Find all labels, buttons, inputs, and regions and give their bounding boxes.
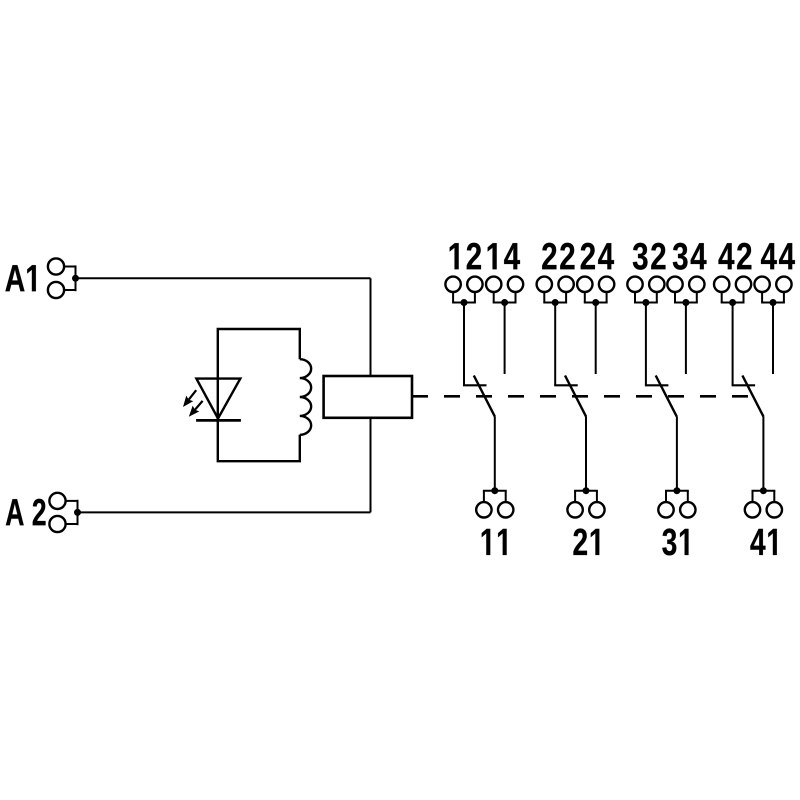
contact arm 11-12 (changeover) (474, 376, 495, 417)
node 21 junction (583, 487, 590, 494)
contact arm 31-32 (changeover) (656, 376, 677, 417)
label 42 (718, 243, 751, 270)
node A2 junction (74, 509, 81, 516)
label 32 (633, 243, 666, 270)
relay K1 actuator box (324, 376, 412, 418)
label 12 (450, 243, 481, 270)
node 12 junction (461, 299, 468, 306)
wire A1-A2 vertical (370, 278, 372, 512)
node 31 junction (673, 487, 680, 494)
mechanical linkage (dashed) (412, 395, 748, 398)
node 44 junction (770, 299, 777, 306)
LED emission arrow 2 (189, 401, 203, 417)
terminal 31 (double clamp circles) (658, 491, 695, 518)
wire 42 down (732, 303, 734, 386)
terminal 14 (double clamp circles) (486, 277, 523, 303)
terminal A2 (double clamp circles) (49, 493, 77, 532)
node 11 junction (491, 487, 498, 494)
wire arm down to 31 (676, 416, 678, 491)
terminal 22 (double clamp circles) (537, 277, 574, 303)
input module box outline (218, 329, 300, 461)
wire 44 down (NO contact end) (772, 303, 774, 375)
contact 22 fixed (NC) (554, 384, 578, 386)
label A2 (6, 499, 46, 526)
wire A1 horizontal (76, 277, 371, 279)
label 34 (673, 243, 707, 270)
terminal 32 (double clamp circles) (627, 277, 664, 303)
label 24 (581, 243, 614, 270)
contact 12 fixed (NC) (463, 384, 487, 386)
label 44 (761, 243, 795, 269)
node 34 junction (682, 299, 689, 306)
label A1 (5, 265, 35, 291)
node 22 junction (552, 299, 559, 306)
node A1 junction (72, 275, 79, 282)
coil L1 (relay coil winding) (300, 359, 311, 435)
wire 24 down (NO contact end) (595, 303, 597, 375)
terminal 44 (double clamp circles) (754, 277, 791, 303)
label 14 (488, 243, 520, 269)
terminal 24 (double clamp circles) (577, 277, 614, 303)
LED D1 cathode bar (196, 419, 241, 422)
label 21 (573, 528, 599, 555)
node 42 junction (729, 299, 736, 306)
node 41 junction (760, 487, 767, 494)
wire arm down to 21 (585, 416, 587, 491)
label 41 (750, 529, 776, 555)
wire 12 down (463, 303, 465, 386)
wire 32 down (645, 303, 647, 386)
wire arm down to 11 (494, 416, 496, 491)
terminal 34 (double clamp circles) (667, 277, 704, 303)
contact 32 fixed (NC) (645, 384, 669, 386)
terminal 12 (double clamp circles) (445, 277, 482, 303)
label 11 (482, 529, 507, 555)
node 14 junction (501, 299, 508, 306)
terminal A1 (double clamp circles) (48, 258, 76, 298)
terminal 11 (double clamp circles) (476, 491, 513, 518)
label 31 (662, 528, 688, 555)
wire arm down to 41 (762, 416, 764, 491)
contact arm 21-22 (changeover) (565, 376, 586, 417)
LED D1 triangle (196, 379, 240, 419)
LED emission arrow 1 (183, 390, 196, 407)
wire 22 down (554, 303, 556, 386)
node 32 junction (642, 299, 649, 306)
label 22 (542, 243, 574, 270)
node 24 junction (592, 299, 599, 306)
wire A2 horizontal (78, 511, 371, 513)
terminal 41 (double clamp circles) (745, 491, 782, 518)
terminal 21 (double clamp circles) (567, 491, 604, 518)
wire 14 down (NO contact end) (504, 303, 506, 375)
wire 34 down (NO contact end) (685, 303, 687, 375)
contact 42 fixed (NC) (732, 384, 756, 386)
contact arm 41-42 (changeover) (742, 376, 763, 417)
terminal 42 (double clamp circles) (714, 277, 751, 303)
